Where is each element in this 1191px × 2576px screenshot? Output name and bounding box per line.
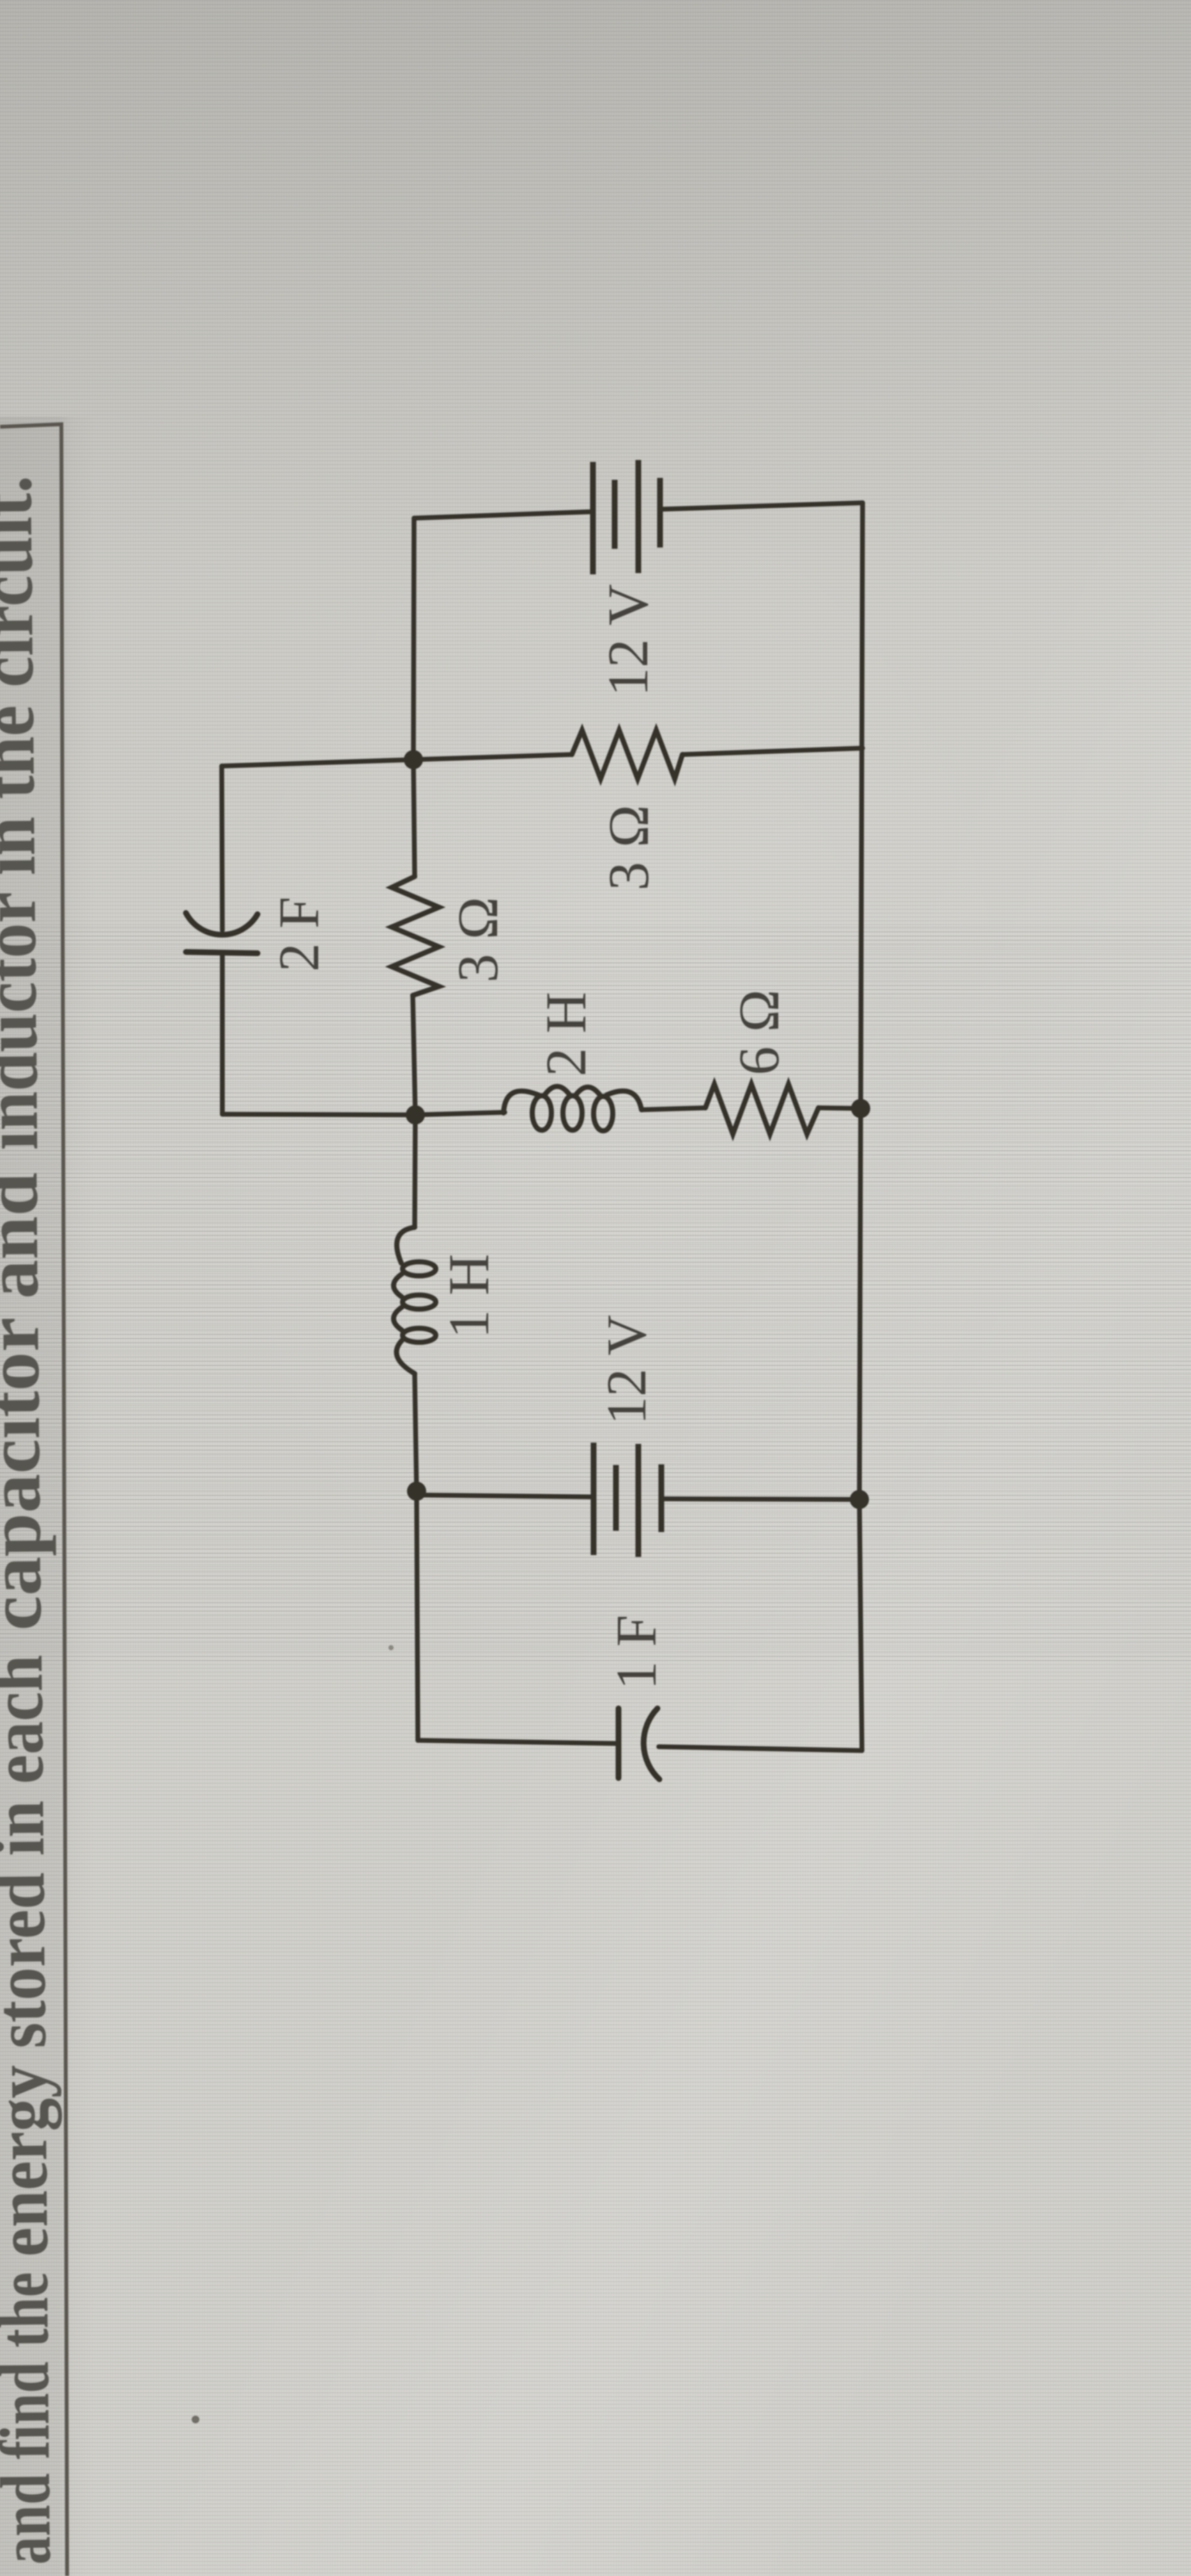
wire left vertical (TL corner to node A) xyxy=(413,518,414,760)
wire inductor L2 to resistor R3 xyxy=(642,1108,705,1110)
svg-text:3 Ω: 3 Ω xyxy=(447,897,510,983)
node A xyxy=(404,750,423,769)
node E xyxy=(850,1490,869,1509)
wire resistor R3 to node C xyxy=(818,1108,861,1108)
node B xyxy=(406,1105,425,1124)
wire node A down to resistor R2 xyxy=(413,760,415,877)
node C xyxy=(851,1099,870,1118)
wire inductor L1 to node D xyxy=(415,1374,417,1491)
svg-text:6 Ω: 6 Ω xyxy=(728,990,791,1075)
wire right vertical upper (TR corner to node C) xyxy=(861,503,863,1108)
resistor R3 6Ω (horizontal) xyxy=(705,1084,818,1134)
wire battery V2 to node E xyxy=(662,1499,859,1499)
wire capacitor C1 top lead xyxy=(222,766,222,930)
svg-text:3 Ω: 3 Ω xyxy=(597,805,661,891)
svg-text:and find the: and find the xyxy=(0,2272,66,2565)
wire node D to battery V2 xyxy=(417,1495,594,1497)
wire resistor R2 to node B xyxy=(413,995,415,1115)
svg-text:2 F: 2 F xyxy=(268,896,331,972)
svg-text:capacitor and: capacitor and xyxy=(0,1172,58,1631)
resistor R2 3Ω (vertical) xyxy=(392,877,439,995)
svg-text:1 H: 1 H xyxy=(438,1254,501,1339)
wire bottom-right (capacitor C2 to BR corner) xyxy=(659,1747,862,1751)
wire capacitor C1 bottom lead xyxy=(220,953,225,1114)
wire node B to inductor L2 xyxy=(415,1112,505,1115)
wire resistor R1 to right vertical xyxy=(682,748,863,755)
inductor L1 1H xyxy=(394,1227,436,1374)
wire node A to resistor R1 xyxy=(413,755,572,760)
battery V2 12V xyxy=(594,1443,661,1557)
svg-text:1 F: 1 F xyxy=(605,1614,668,1690)
wire node D down to BL corner xyxy=(417,1491,418,1740)
node D xyxy=(407,1482,426,1501)
resistor R1 3Ω (horizontal) xyxy=(572,730,682,779)
svg-text:2 H: 2 H xyxy=(535,992,598,1077)
wire right vertical middle (node C to node E) xyxy=(859,1108,861,1499)
svg-text:12 V: 12 V xyxy=(596,1315,658,1425)
wire node A to left branch corner xyxy=(222,760,413,766)
wire node B down to inductor L1 xyxy=(415,1115,415,1227)
svg-text:12 V: 12 V xyxy=(597,584,660,696)
wire top-left (TL corner to battery V1) xyxy=(414,512,591,518)
capacitor C2 1F xyxy=(619,1708,659,1779)
inductor L2 2H xyxy=(503,1087,642,1131)
battery V1 12V xyxy=(593,460,660,574)
svg-text:inductor in the circuit.: inductor in the circuit. xyxy=(0,475,54,1151)
wire top-right (battery V1 to TR corner) xyxy=(662,503,863,509)
wire left branch bottom (to node B) xyxy=(222,1114,415,1115)
svg-text:energy stored in each: energy stored in each xyxy=(0,1655,64,2257)
capacitor C1 2F xyxy=(186,913,257,953)
wire right vertical lower (node E to BR corner) xyxy=(859,1499,862,1751)
wire bottom-left (BL corner to capacitor C2) xyxy=(418,1740,619,1744)
